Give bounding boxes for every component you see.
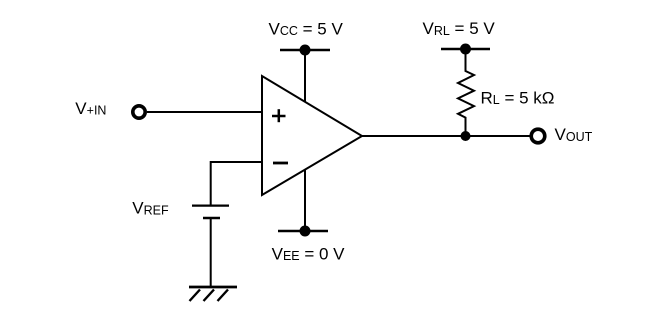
svg-text:RL = 5 kΩ: RL = 5 kΩ — [481, 88, 555, 107]
svg-text:VCC = 5 V: VCC = 5 V — [269, 19, 344, 38]
svg-text:VRL = 5 V: VRL = 5 V — [423, 19, 496, 38]
svg-text:VEE = 0 V: VEE = 0 V — [272, 244, 346, 263]
